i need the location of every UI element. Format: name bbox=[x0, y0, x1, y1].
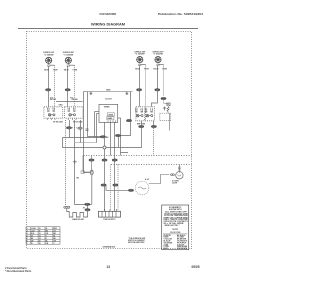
svg-text:TB-W: TB-W bbox=[135, 69, 140, 71]
svg-text:GND: GND bbox=[59, 105, 64, 107]
svg-text:W-WHITE: W-WHITE bbox=[164, 235, 171, 237]
svg-text:3: 3 bbox=[27, 233, 28, 235]
svg-text:GN-GREEN: GN-GREEN bbox=[164, 242, 173, 244]
svg-text:V-VIOLET: V-VIOLET bbox=[177, 244, 184, 246]
svg-text:Y-YELLOW: Y-YELLOW bbox=[164, 239, 173, 241]
svg-text:Y16R: Y16R bbox=[144, 69, 149, 71]
svg-text:OVEN: OVEN bbox=[108, 114, 114, 116]
svg-text:10: 10 bbox=[39, 228, 41, 230]
svg-text:PR-PURPLE: PR-PURPLE bbox=[177, 242, 186, 244]
svg-text:1: 1 bbox=[27, 228, 28, 230]
svg-text:BL: BL bbox=[46, 240, 48, 242]
svg-text:GNDWA302: GNDWA302 bbox=[103, 245, 116, 248]
svg-text:SEE NOTE *: SEE NOTE * bbox=[165, 225, 181, 227]
svg-text:MUST BE MATCHED: MUST BE MATCHED bbox=[128, 241, 145, 244]
svg-text:* Non-Illustrated Parts: * Non-Illustrated Parts bbox=[5, 270, 32, 273]
svg-text:5: 5 bbox=[27, 238, 28, 240]
svg-text:INF SW 1240W: INF SW 1240W bbox=[53, 120, 63, 123]
svg-text:BK/W: BK/W bbox=[164, 248, 169, 250]
svg-text:2: 2 bbox=[27, 230, 28, 232]
svg-text:Y16R: Y16R bbox=[72, 69, 77, 71]
svg-text:7: 7 bbox=[27, 243, 28, 245]
svg-text:CLOCK: CLOCK bbox=[105, 99, 112, 101]
svg-text:W/BK-WH/BK: W/BK-WH/BK bbox=[177, 246, 188, 248]
svg-text:N-W: N-W bbox=[31, 233, 35, 235]
svg-text:12: 12 bbox=[39, 233, 41, 235]
svg-text:GND: GND bbox=[106, 89, 111, 91]
svg-text:TB-W: TB-W bbox=[64, 69, 69, 71]
svg-text:TIMER: TIMER bbox=[104, 107, 111, 109]
svg-text:TB-W: TB-W bbox=[153, 69, 158, 71]
svg-text:16: 16 bbox=[39, 243, 41, 245]
svg-text:WIRING DIAGRAM: WIRING DIAGRAM bbox=[91, 22, 125, 26]
svg-text:13: 13 bbox=[39, 235, 41, 237]
svg-text:FGF332CMD: FGF332CMD bbox=[100, 12, 117, 16]
svg-text:4 GY: 4 GY bbox=[145, 178, 150, 181]
svg-text:Publication No. 5995419364: Publication No. 5995419364 bbox=[158, 12, 203, 16]
svg-text:6: 6 bbox=[27, 240, 28, 242]
svg-text:BL-BLUE: BL-BLUE bbox=[164, 241, 171, 243]
svg-text:15: 15 bbox=[39, 240, 41, 242]
svg-text:Y16R: Y16R bbox=[53, 69, 58, 71]
svg-text:BAKE ELEM: BAKE ELEM bbox=[72, 218, 84, 221]
svg-text:LIGHT: LIGHT bbox=[172, 182, 178, 184]
svg-text:R-RED: R-RED bbox=[164, 237, 170, 239]
svg-text:PWR SUPPLY: PWR SUPPLY bbox=[103, 219, 116, 221]
svg-text:09/05: 09/05 bbox=[192, 265, 200, 269]
svg-text:W: W bbox=[83, 208, 85, 210]
svg-text:BR-BROWN: BR-BROWN bbox=[177, 239, 187, 241]
svg-text:P-PINK: P-PINK bbox=[164, 246, 170, 248]
svg-text:INF SW: INF SW bbox=[50, 99, 56, 101]
svg-text:INF SW: INF SW bbox=[72, 99, 78, 101]
svg-text:11: 11 bbox=[39, 230, 41, 232]
svg-text:Y16R: Y16R bbox=[162, 69, 167, 71]
svg-text:13: 13 bbox=[107, 265, 111, 269]
svg-text:R/W-RED/WH: R/W-RED/WH bbox=[177, 248, 188, 250]
svg-text:TB-W: TB-W bbox=[44, 69, 49, 71]
